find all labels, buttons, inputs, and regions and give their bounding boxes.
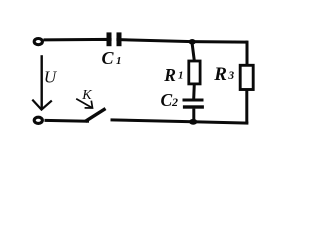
wire R1-C2 stub xyxy=(192,84,196,99)
arrow U head xyxy=(32,100,52,110)
terminal top-left xyxy=(34,39,42,45)
wire top horizontal xyxy=(44,39,248,42)
svg-text:K: K xyxy=(81,88,92,103)
svg-text:C: C xyxy=(161,90,173,110)
svg-text:R: R xyxy=(213,64,227,85)
wire right vertical top xyxy=(246,41,249,66)
svg-text:R: R xyxy=(163,65,176,85)
wire C2 bottom stub xyxy=(192,109,195,121)
node bottom junction xyxy=(189,119,197,125)
svg-text:C: C xyxy=(102,48,115,68)
svg-text:2: 2 xyxy=(171,95,178,109)
arrow U shaft xyxy=(41,55,43,109)
capacitor C2 plates xyxy=(183,99,204,109)
resistor R1 body xyxy=(189,61,200,84)
svg-text:1: 1 xyxy=(116,55,122,67)
switch K blade xyxy=(85,109,105,122)
capacitor C1 gap xyxy=(112,31,117,48)
capacitor C1 plates xyxy=(107,32,122,46)
svg-text:3: 3 xyxy=(227,70,234,82)
wire right vertical bottom xyxy=(245,89,248,123)
arrow K pointer xyxy=(76,99,92,108)
svg-text:U: U xyxy=(44,68,58,87)
node top junction xyxy=(189,39,196,45)
wire bottom left segment xyxy=(45,119,90,123)
wire bottom right segment xyxy=(111,120,249,123)
resistor R3 body xyxy=(240,65,253,89)
svg-text:1: 1 xyxy=(178,69,184,81)
terminal bottom-left xyxy=(34,117,42,123)
arrow K head xyxy=(85,101,93,108)
wire R1 top stub xyxy=(192,43,194,62)
